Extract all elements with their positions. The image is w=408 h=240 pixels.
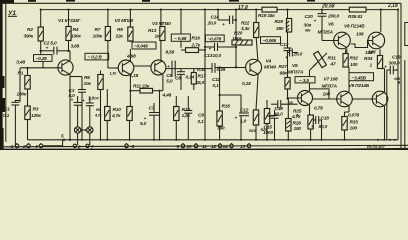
- wire R7 to V2 base: [107, 41, 109, 69]
- wire V7 emitter to V9 base: [348, 106, 350, 112]
- bottom ground wire: [28, 139, 399, 141]
- capacitor C18: [313, 119, 315, 121]
- measurement box ~0,048: [132, 42, 156, 49]
- border frame: right border line: [400, 3, 402, 150]
- resistor R1: [25, 76, 30, 90]
- resistor R23: [253, 110, 258, 125]
- paper background: [0, 0, 408, 150]
- resistor R24: [264, 109, 269, 124]
- capacitor C16: [271, 103, 278, 105]
- wire V2 emitter down: [129, 75, 131, 107]
- resistor R3: [25, 106, 30, 120]
- wire V1 emitter down: [69, 74, 71, 139]
- wire V7 collector up to R32: [348, 67, 350, 92]
- electrolytic C4: [74, 102, 82, 104]
- resistor R6: [98, 75, 103, 90]
- connector pin circle 7: [89, 106, 91, 127]
- wire right rail down: [397, 70, 399, 140]
- bus junction dots: [40, 9, 42, 11]
- wire V1 base: [20, 67, 62, 69]
- resistor R28 (hatched): [286, 119, 291, 132]
- wire V7 emitter down: [345, 111, 350, 113]
- capacitor C9: [187, 96, 189, 111]
- resistor R18: [219, 67, 221, 111]
- border frame: bottom border line: [0, 145, 408, 147]
- wire V5 base: [288, 97, 302, 99]
- wire bus drop to V8: [380, 10, 382, 32]
- node junction at C2: [40, 50, 42, 52]
- top supply bus: [41, 9, 262, 11]
- transistor V1: [58, 60, 73, 75]
- border frame: top edge tick marks: [28, 0, 36, 2]
- electrolytic 20,0: [288, 52, 290, 54]
- wire V6 base: [322, 40, 338, 42]
- resistor R29 (hatched): [287, 10, 289, 19]
- resistor R14: [174, 107, 179, 121]
- electrolytic C6: [171, 61, 173, 77]
- transistor V8: [368, 32, 385, 49]
- measurement box ~0,68: [171, 34, 190, 41]
- wire bus drop to R4: [68, 10, 70, 27]
- ground wire junction dots: [63, 139, 65, 141]
- capacitor C3: [78, 89, 86, 91]
- resistor R33: [342, 117, 347, 131]
- wire bus drop to R7: [107, 10, 109, 27]
- transistor V3: [151, 60, 166, 75]
- pin 7: [86, 144, 89, 147]
- wire bus drop x=236: [235, 10, 237, 40]
- resistor R13: [160, 27, 165, 41]
- resistor R7: [105, 27, 110, 41]
- wire V2 collector to V3 base: [134, 65, 152, 67]
- measurement box ~0,078: [206, 35, 225, 42]
- wire R2 to C2 node: [40, 41, 42, 55]
- capacitor C8: [177, 71, 185, 73]
- wire bus drop to R13: [160, 10, 162, 27]
- scan noise texture: [0, 0, 1, 1]
- border frame: left torn black edge: [0, 0, 3, 150]
- transistor V9: [372, 91, 388, 107]
- wire V3 emitter down: [162, 74, 164, 90]
- resistor R11: [130, 90, 140, 92]
- border frame: left inner border line: [5, 3, 7, 142]
- capacitor C17: [287, 32, 289, 48]
- wire V9 emitter down: [384, 106, 386, 140]
- capacitor C15: [267, 115, 275, 117]
- resistor R9: [128, 27, 133, 41]
- capacitor C20: [321, 10, 323, 14]
- wire C19 left down: [386, 70, 388, 140]
- measurement box ~3,5: [295, 77, 315, 83]
- wire R13 to V3 collector: [160, 41, 162, 61]
- resistor R8: [105, 107, 110, 121]
- wire V4 emitter down: [256, 74, 258, 110]
- wire bus drop x=326 to V6 base: [321, 16, 323, 40]
- transistor V2: [118, 60, 134, 76]
- long vertical rail x=205: [204, 10, 206, 140]
- transistor V4: [246, 59, 262, 75]
- transistor V7: [337, 91, 353, 107]
- measurement box ~0,2В: [85, 53, 109, 60]
- wire V5 emitter to V7 base: [309, 105, 311, 115]
- wire V6 emitter to V8 base: [346, 48, 348, 53]
- resistor R22 body: [255, 10, 257, 23]
- wire V2 base: [108, 67, 118, 69]
- resistor R17: [191, 73, 196, 85]
- wire V9 collector up to R34: [384, 69, 386, 93]
- wire V3 collector to output wire: [166, 68, 212, 70]
- resistor R10: [127, 107, 132, 121]
- wire collector drop into V1: [69, 51, 71, 61]
- transistor V6: [334, 32, 351, 49]
- connector pin circle 6: [77, 105, 79, 127]
- border frame: top border line: [0, 2, 401, 4]
- transistor V5: [298, 91, 313, 106]
- resistor R2: [38, 27, 43, 41]
- capacitor C14: [218, 19, 230, 21]
- wire V5 collector up: [309, 70, 311, 91]
- resistor R16: [186, 48, 199, 53]
- wire R20 down to V4 base rail: [235, 45, 237, 67]
- wire box to V2 collector: [129, 49, 131, 61]
- resistor R30: [308, 115, 313, 129]
- resistor R32: [345, 49, 347, 53]
- measurement box ~0,065: [261, 37, 281, 44]
- electrolytic C5: [86, 102, 94, 104]
- pin 6: [73, 144, 76, 147]
- measurement box -0,28: [34, 55, 53, 62]
- resistor R27: [285, 78, 290, 90]
- capacitor C1: [11, 101, 19, 103]
- wire right rail x=398: [397, 10, 399, 70]
- resistor R34: [379, 49, 381, 55]
- resistor R20 (hatched): [232, 40, 252, 45]
- wire R27 to V5 base: [287, 89, 289, 99]
- electrolytic C12: [219, 94, 221, 96]
- capacitor C2: [41, 50, 54, 52]
- trimmer resistor R31: [314, 51, 327, 67]
- resistor R19 (in bus): [262, 7, 277, 12]
- electrolytic C7: [149, 112, 159, 114]
- wire down to R27: [287, 51, 289, 78]
- capacitor C19: [387, 69, 391, 71]
- wire R4 to collector node: [68, 41, 70, 51]
- capacitor C11: [211, 63, 213, 73]
- border frame: right neighbour bracket: [405, 23, 408, 46]
- resistor R4: [66, 27, 71, 41]
- wire base node down: [19, 68, 21, 102]
- measurement box −3,45В: [349, 73, 374, 81]
- capacitor C13: [205, 46, 215, 48]
- wire bus drop to R9: [129, 10, 131, 27]
- wire R22 to V4 collector: [256, 38, 258, 61]
- wire pin4 loop to node 5: [43, 140, 63, 146]
- wire bus drop to R2: [40, 10, 42, 27]
- resistor R35 (in bus): [349, 7, 366, 12]
